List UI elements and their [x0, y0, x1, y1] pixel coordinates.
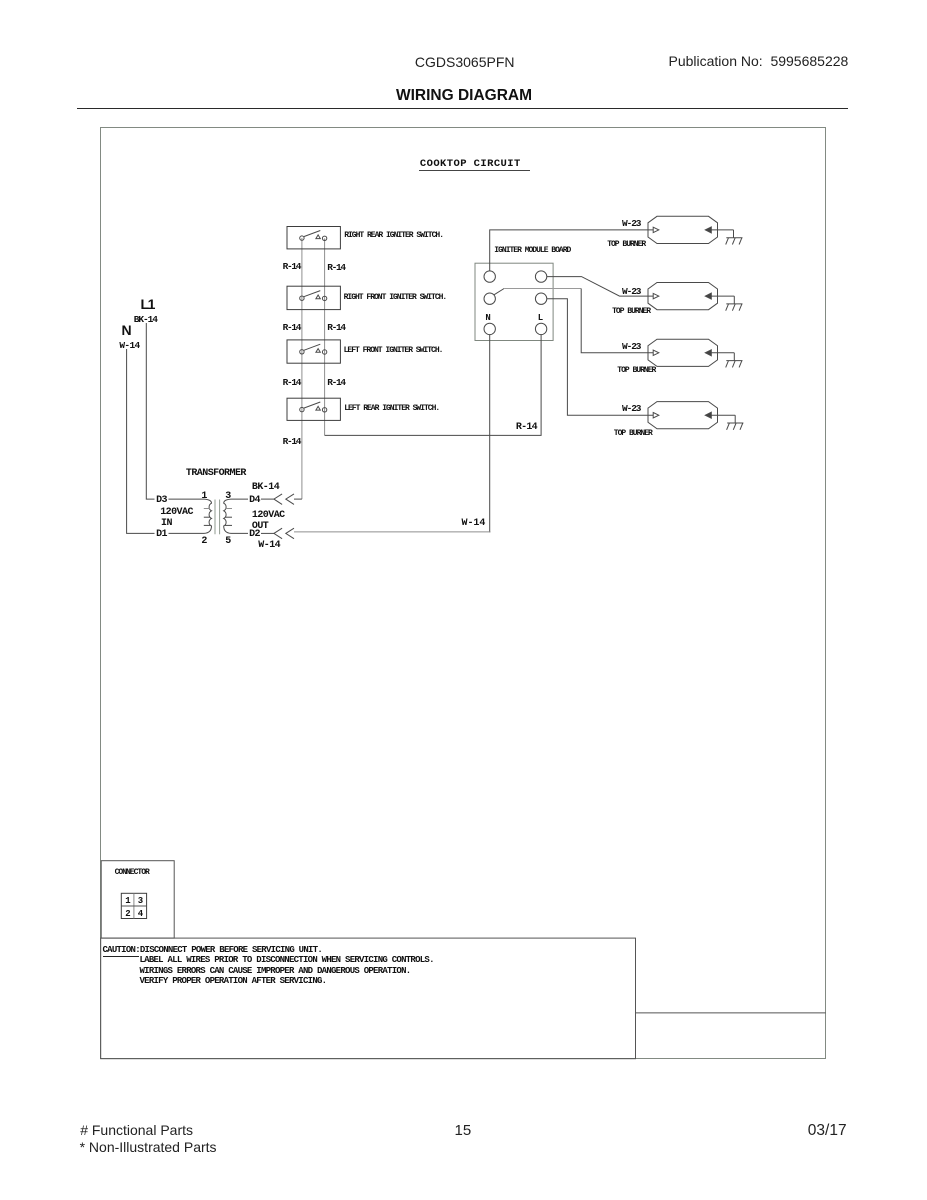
- module terminal N: [484, 323, 495, 334]
- wire D3 to primary: [169, 498, 205, 500]
- label BK-14 at L1: [134, 315, 157, 325]
- transformer T1 secondary winding: [224, 499, 232, 533]
- header model number: [415, 55, 515, 69]
- label R-14 row3 left: [283, 378, 301, 388]
- caution line 4: [140, 977, 327, 986]
- footer functional parts: [80, 1123, 193, 1137]
- label W-14 at N: [119, 341, 139, 351]
- wire module TL up to burner1: [490, 230, 654, 271]
- wire module ML to burner3: [504, 288, 581, 290]
- wire N to D1: [127, 349, 155, 533]
- burner 4 octagon: [648, 402, 735, 429]
- caution line 1: [103, 946, 323, 955]
- burner 4 chassis ground: [727, 415, 744, 430]
- label TOP BURNER 4: [614, 430, 652, 438]
- label W-23 burner2: [622, 287, 640, 297]
- header publication number: [669, 54, 849, 68]
- label L1: [141, 297, 155, 311]
- wire secondary to D2: [231, 532, 248, 534]
- wire D1 to primary: [169, 532, 205, 534]
- wire secondary to D4: [231, 498, 248, 500]
- label pin 2: [201, 537, 206, 547]
- module terminal mid-right: [535, 293, 546, 304]
- label TOP BURNER 2: [612, 308, 650, 316]
- wire chevron to left column: [294, 498, 302, 500]
- label RIGHT REAR IGNITER SWITCH: [344, 232, 443, 240]
- switch SW2 right front igniter: [287, 286, 340, 309]
- label D3: [156, 496, 167, 506]
- igniter module board outline: [475, 263, 553, 340]
- label RIGHT FRONT IGNITER SWITCH: [344, 294, 447, 302]
- burner 3 chassis ground: [726, 353, 743, 368]
- label W-23 burner3: [622, 342, 640, 352]
- label CONNECTOR: [115, 869, 149, 877]
- label LEFT FRONT IGNITER SWITCH: [344, 347, 443, 355]
- label R-14 near module L: [516, 423, 537, 433]
- connector pin 2: [125, 910, 129, 919]
- connector pin 4: [138, 910, 142, 919]
- header title WIRING DIAGRAM: [396, 88, 532, 104]
- caution underline: [103, 956, 140, 957]
- wire module L down to R-14 run: [325, 335, 541, 436]
- label W-14 secondary: [258, 541, 280, 551]
- label BK-14 secondary: [252, 483, 279, 493]
- label 120VAC IN: [160, 508, 193, 518]
- label R-14 row3 right: [327, 378, 345, 388]
- label LEFT REAR IGNITER SWITCH: [344, 405, 439, 413]
- label W-14 run: [462, 519, 486, 529]
- label pin 3: [225, 492, 230, 502]
- wire module N down to W-14 run: [489, 335, 492, 532]
- wire D4 to connector: [261, 498, 274, 500]
- footer page number: [455, 1123, 472, 1138]
- burner 2 chassis ground: [726, 296, 743, 311]
- label R-14 row1 left: [283, 262, 301, 272]
- wire right switch column R-14: [324, 238, 326, 435]
- burner 3 octagon: [648, 339, 734, 366]
- caution line 2: [140, 956, 434, 965]
- label TRANSFORMER: [186, 469, 246, 479]
- label R-14 row2 left: [283, 323, 301, 333]
- label OUT: [252, 522, 268, 532]
- label N supply: [122, 323, 132, 337]
- label D1: [156, 530, 167, 540]
- burner 2 octagon: [648, 283, 734, 310]
- wire module MR to burner4: [547, 299, 653, 416]
- label D4: [249, 496, 260, 506]
- burner 1 chassis ground: [726, 230, 743, 245]
- label pin 5: [225, 537, 230, 547]
- label R-14 row2 right: [327, 323, 345, 333]
- module terminal mid-left: [484, 293, 495, 304]
- label IN: [161, 519, 172, 529]
- title COOKTOP CIRCUIT: [420, 159, 521, 170]
- label IGNITER MODULE BOARD: [494, 247, 570, 255]
- label R-14 row1 right: [327, 263, 345, 273]
- caution line 3: [140, 967, 411, 976]
- label 120VAC OUT: [252, 511, 285, 521]
- footer non-illustrated parts: [80, 1140, 217, 1154]
- wire W-14 run to module N: [294, 531, 490, 533]
- label W-23 burner4: [622, 404, 640, 414]
- label N module: [485, 314, 489, 323]
- connector chevrons D4 BK-14: [274, 494, 294, 505]
- module terminal top-left: [484, 271, 495, 282]
- main diagram border: [100, 127, 826, 1059]
- title underline: [419, 170, 530, 171]
- switch SW1 right rear igniter: [287, 227, 340, 249]
- header rule: [77, 108, 848, 110]
- transformer core: [215, 500, 220, 535]
- label W-23 burner1: [622, 219, 640, 229]
- label D2: [249, 530, 260, 540]
- connector pin table: [121, 893, 146, 918]
- label R-14 below SW4: [283, 437, 301, 447]
- transformer T1 primary winding: [204, 499, 212, 533]
- bottom right box: [636, 1012, 826, 1014]
- module terminal L: [535, 323, 546, 334]
- label TOP BURNER 3: [617, 367, 655, 375]
- label TOP BURNER 1: [607, 241, 645, 249]
- burner 1 octagon: [648, 216, 734, 243]
- footer date: [808, 1123, 847, 1139]
- caution box: [101, 938, 636, 1059]
- switch SW4 left rear igniter: [287, 398, 340, 420]
- connector pin 1: [125, 897, 129, 906]
- label L module: [538, 314, 542, 323]
- connector box outline: [101, 861, 174, 938]
- wire module TR to burner2: [547, 277, 653, 297]
- module terminal top-right: [535, 271, 546, 282]
- label pin 1: [201, 492, 206, 502]
- switch SW3 left front igniter: [287, 340, 340, 363]
- wire L1 to D3: [146, 323, 154, 499]
- wire D2 to connector: [261, 532, 274, 534]
- connector chevrons D2 W-14: [274, 528, 294, 539]
- connector pin 3: [138, 897, 142, 906]
- wire module ML slant: [494, 289, 504, 295]
- wire left switch column R-14: [301, 238, 303, 499]
